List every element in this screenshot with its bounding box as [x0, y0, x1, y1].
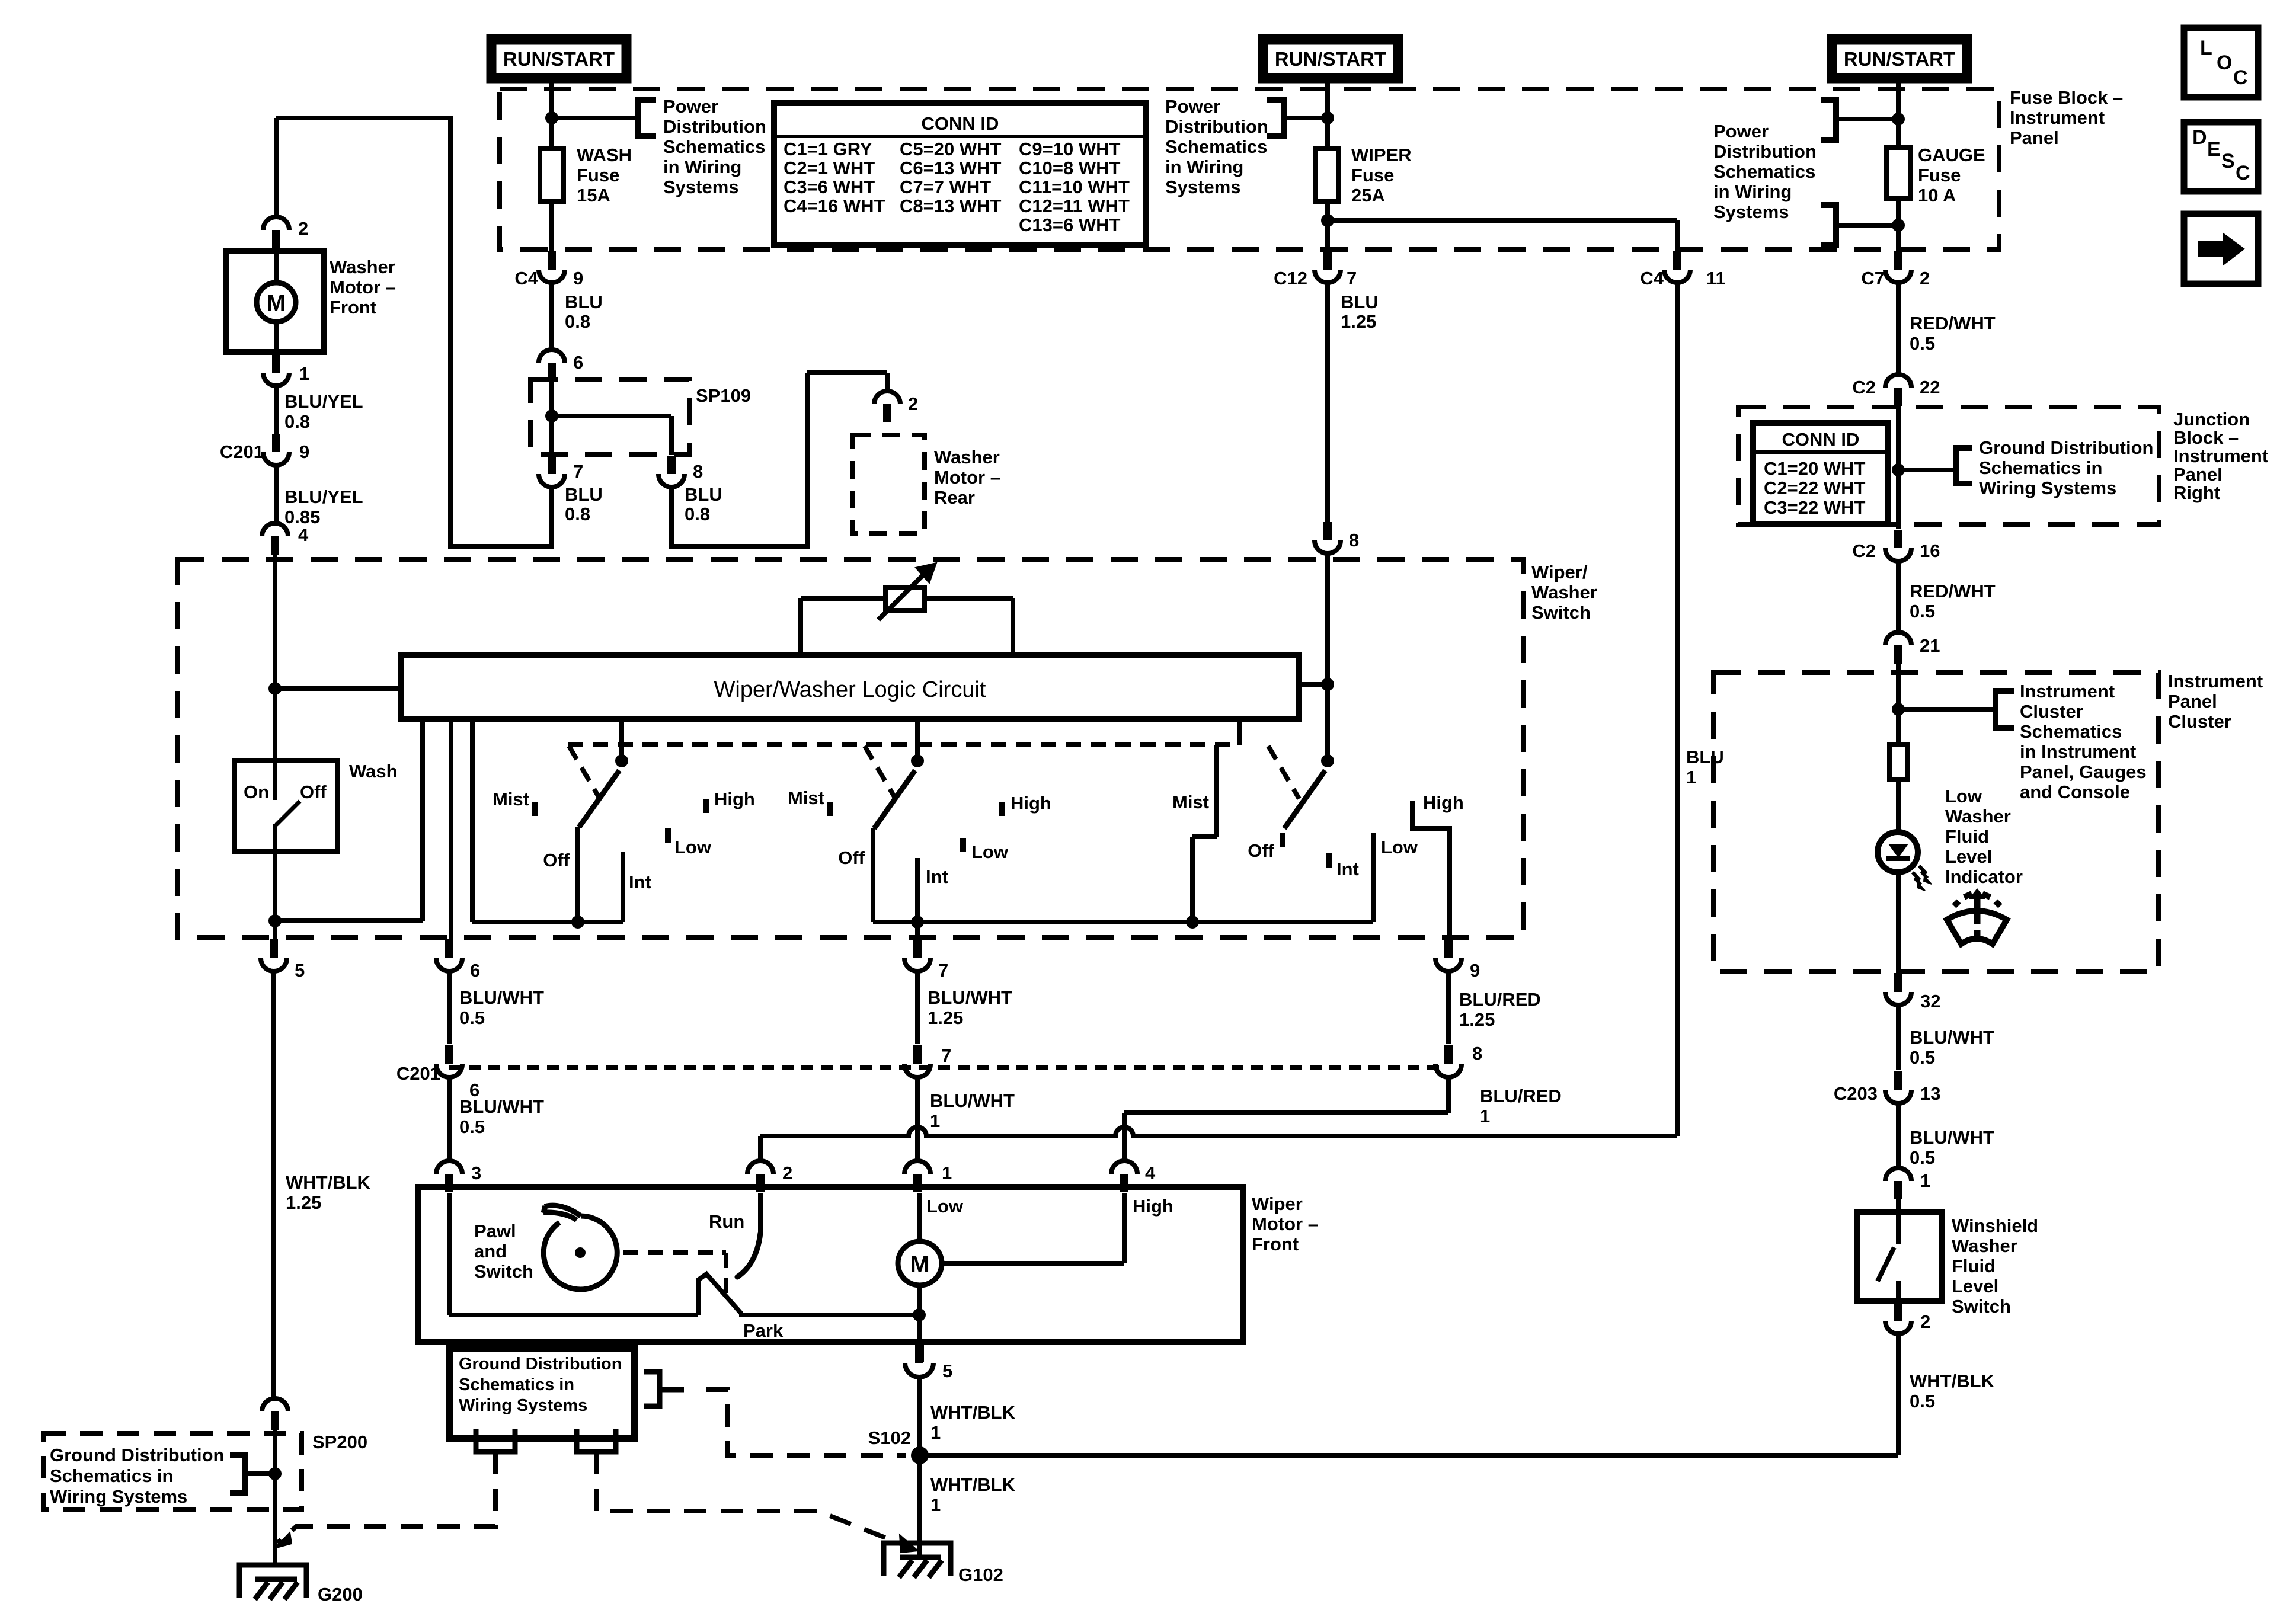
svg-text:D: D	[2192, 126, 2207, 149]
svg-text:5: 5	[295, 960, 305, 981]
wire to bracket 3a	[1836, 117, 1898, 121]
node junction block tap	[1892, 463, 1905, 476]
connector washer motor rear pin 2	[874, 391, 900, 422]
connector pin 2 (fluid switch)	[1894, 1301, 1902, 1320]
svg-text:Switch: Switch	[1952, 1296, 2011, 1317]
wire into SP109	[549, 381, 554, 455]
wire pin3 inside	[447, 1193, 452, 1315]
svg-text:BLU: BLU	[685, 484, 722, 505]
svg-text:C10=8 WHT: C10=8 WHT	[1019, 158, 1120, 178]
pole2 Int/output wire	[915, 858, 920, 939]
power source box RUN/START (right)	[1831, 39, 1968, 79]
svg-text:CONN ID: CONN ID	[922, 113, 999, 134]
svg-text:Mist: Mist	[1172, 792, 1209, 812]
junction block dashed box	[1738, 407, 2159, 524]
gang link pole 2	[865, 746, 896, 799]
windshield washer fluid level switch box	[1857, 1212, 1942, 1301]
connector C201 pin	[913, 1045, 922, 1062]
svg-text:Fuse: Fuse	[1918, 165, 1961, 185]
pole1 Low tick	[665, 828, 671, 843]
wire pin8 into logic	[1325, 553, 1330, 761]
wire C201-7 to motor pin1	[915, 1077, 920, 1161]
connector wiper motor pin 4	[1111, 1161, 1137, 1192]
wire wash out	[273, 852, 277, 939]
wire pin6 down	[447, 971, 452, 1044]
wire C201-9 to 4	[274, 465, 279, 524]
connector pin 21	[1885, 632, 1911, 664]
fuse block dashed enclosure	[500, 89, 1999, 249]
svg-text:WASH: WASH	[577, 145, 632, 165]
CONN ID table (wiper/washer switch)	[774, 103, 1146, 245]
svg-text:Int: Int	[1336, 859, 1359, 879]
fluid switch lower stub	[1896, 1281, 1901, 1301]
svg-text:Distribution: Distribution	[1713, 141, 1817, 162]
ground distribution dashed box (left)	[43, 1433, 302, 1510]
svg-text:BLU: BLU	[1686, 747, 1724, 767]
connector pin 7	[539, 456, 565, 487]
svg-text:Low: Low	[926, 1196, 964, 1217]
pole3 Mist step	[1192, 834, 1217, 839]
connector switch pin 7	[913, 939, 922, 957]
node WIPER out	[1321, 214, 1334, 227]
wire BLU/RED jog left	[1124, 1110, 1448, 1115]
svg-text:Panel: Panel	[2010, 127, 2059, 148]
svg-text:Instrument: Instrument	[2020, 681, 2115, 702]
wire run feed with hops	[760, 1127, 1677, 1136]
connector C2 pin 22	[1885, 375, 1911, 406]
LED indicator	[1878, 832, 1918, 872]
connector 6	[539, 350, 565, 381]
svg-text:C12: C12	[1274, 268, 1307, 289]
node gauge out	[1892, 219, 1905, 232]
svg-text:0.5: 0.5	[1910, 333, 1935, 354]
wire pin8 jog right	[669, 544, 807, 549]
wiper/washer switch dashed box	[177, 559, 1523, 937]
svg-text:Block –: Block –	[2173, 427, 2239, 448]
bracket power distribution (2)	[1267, 100, 1284, 136]
connector C2 pin 16	[1885, 530, 1911, 561]
svg-text:1: 1	[930, 1110, 940, 1131]
wire C201-6 to motor pin3	[447, 1077, 452, 1161]
connector pin 8	[658, 456, 685, 487]
svg-text:7: 7	[938, 960, 948, 981]
wash switch box	[235, 761, 337, 852]
fluid switch blade	[1878, 1247, 1894, 1281]
svg-text:Fuse: Fuse	[1351, 165, 1394, 185]
svg-text:Switch: Switch	[1531, 602, 1591, 623]
connector C4 pin 9	[539, 251, 565, 283]
svg-text:RUN/START: RUN/START	[1275, 48, 1386, 70]
wire to bracket (2)	[1284, 116, 1328, 120]
wire logic riser collector 1	[470, 719, 475, 922]
connector pin 32	[1894, 973, 1902, 991]
svg-text:0.5: 0.5	[1910, 1391, 1935, 1411]
node cluster tap	[1892, 703, 1905, 716]
svg-text:C7=7 WHT: C7=7 WHT	[900, 177, 991, 197]
wire to C4-11	[1328, 218, 1677, 223]
park wire to motor	[739, 1313, 919, 1317]
washer motor rear dashed box	[853, 435, 925, 533]
pole2 collector	[873, 920, 1373, 924]
connector pin 1 (fluid switch)	[1885, 1168, 1911, 1199]
svg-text:Front: Front	[1252, 1234, 1299, 1254]
svg-text:Run: Run	[709, 1211, 744, 1232]
wire BLU 1 column	[1675, 283, 1680, 1136]
svg-text:in Instrument: in Instrument	[2020, 741, 2136, 762]
svg-text:Washer: Washer	[1952, 1235, 2017, 1256]
svg-text:0.8: 0.8	[565, 504, 590, 524]
pole2 pivot node	[911, 754, 924, 767]
svg-text:BLU: BLU	[1341, 292, 1379, 312]
svg-text:Cluster: Cluster	[2020, 701, 2083, 722]
wire into wash switch	[273, 689, 277, 761]
wire resistor to LED	[1896, 780, 1901, 973]
svg-text:CONN ID: CONN ID	[1782, 429, 1860, 450]
wire high to M	[942, 1261, 1124, 1266]
svg-text:BLU/WHT: BLU/WHT	[1910, 1027, 1994, 1048]
svg-text:9: 9	[1470, 960, 1480, 981]
svg-text:WIPER: WIPER	[1351, 145, 1412, 165]
svg-text:Power: Power	[1713, 121, 1769, 142]
wire C7-2 down	[1896, 283, 1901, 375]
pawl hook lower	[543, 1212, 577, 1220]
wire wash to logic pin	[275, 918, 423, 923]
svg-text:Off: Off	[1248, 840, 1274, 861]
svg-text:O: O	[2217, 52, 2232, 74]
pawl hook upper	[545, 1205, 581, 1216]
svg-text:Wiring Systems: Wiring Systems	[50, 1486, 187, 1507]
svg-text:21: 21	[1920, 635, 1940, 656]
LED light arrows	[1919, 866, 1927, 878]
svg-text:C: C	[2236, 162, 2250, 184]
node gauge feed	[1892, 113, 1905, 126]
staple pin A	[476, 1429, 515, 1452]
svg-text:in Wiring: in Wiring	[1713, 181, 1792, 202]
svg-text:Low: Low	[674, 837, 712, 857]
svg-text:0.5: 0.5	[459, 1116, 485, 1137]
svg-text:Mist: Mist	[788, 788, 824, 808]
wire C12 to switch pin 8	[1325, 283, 1330, 522]
wire pin4 into switch	[273, 555, 277, 689]
svg-text:9: 9	[573, 268, 583, 289]
svg-text:1: 1	[299, 363, 309, 384]
connector washer motor front pin 1	[272, 352, 280, 370]
node park junction	[913, 1308, 926, 1321]
svg-text:Off: Off	[838, 847, 865, 868]
svg-text:Systems: Systems	[1713, 201, 1789, 222]
fuse GAUGE 10A	[1886, 148, 1910, 199]
svg-text:RUN/START: RUN/START	[1844, 48, 1955, 70]
svg-text:L: L	[2200, 37, 2212, 59]
connector C201 pin	[445, 1045, 453, 1062]
wire bracket to G200 wire	[245, 1471, 275, 1476]
wire to ground distribution bracket	[1898, 468, 1956, 472]
wire into junction block	[1896, 406, 1901, 529]
bracket ground distribution (right)	[1956, 448, 1972, 484]
pole2 High tick	[999, 802, 1005, 816]
wire to power distribution bracket	[552, 116, 638, 120]
connector washer motor front pin 2	[263, 217, 289, 248]
svg-text:C1=20 WHT: C1=20 WHT	[1764, 458, 1865, 479]
svg-text:Right: Right	[2173, 482, 2220, 503]
svg-text:Wiring Systems: Wiring Systems	[459, 1396, 587, 1415]
svg-text:Low: Low	[1381, 837, 1418, 857]
svg-text:1: 1	[1686, 767, 1696, 788]
connector C201 pin	[1444, 1045, 1453, 1062]
wire motor out	[917, 1315, 922, 1342]
splice node S102	[911, 1446, 929, 1464]
wire riser to top feed	[448, 118, 453, 549]
gang link pole 3	[1268, 746, 1299, 799]
svg-text:4: 4	[298, 524, 309, 545]
svg-text:and Console: and Console	[2020, 782, 2130, 802]
wire SP109 branch	[552, 414, 671, 418]
wire 32 to C203	[1896, 1005, 1901, 1070]
svg-text:RED/WHT: RED/WHT	[1910, 313, 1996, 334]
wire pin7 jog left	[449, 544, 554, 549]
wire S102 to G102	[917, 1455, 922, 1560]
svg-text:13: 13	[1920, 1083, 1940, 1104]
wire run stub	[758, 1193, 763, 1233]
svg-text:2: 2	[908, 393, 918, 414]
svg-text:Motor –: Motor –	[934, 467, 1000, 488]
svg-text:0.5: 0.5	[1910, 1047, 1935, 1068]
power source box RUN/START (left)	[491, 39, 627, 79]
node WIPER feed	[1321, 111, 1334, 124]
park contact blade	[698, 1274, 741, 1315]
svg-text:8: 8	[1472, 1043, 1482, 1064]
dashed ground path to G102	[596, 1452, 908, 1547]
svg-text:Switch: Switch	[474, 1261, 533, 1282]
dashed ground path to G200	[277, 1452, 495, 1543]
svg-text:Wiper/: Wiper/	[1531, 562, 1588, 582]
svg-text:Mist: Mist	[493, 789, 529, 809]
svg-text:7: 7	[1347, 268, 1357, 289]
pole1 pivot stub	[619, 719, 624, 762]
ground G200	[239, 1565, 306, 1599]
svg-text:Cluster: Cluster	[2168, 711, 2231, 732]
connector wiper motor pin 1	[904, 1161, 930, 1192]
svg-text:Systems: Systems	[1165, 177, 1241, 197]
svg-text:22: 22	[1920, 377, 1940, 398]
wire BLU/RED drop	[1446, 1077, 1451, 1113]
svg-text:Instrument: Instrument	[2173, 446, 2268, 466]
wire logic to pin 6	[449, 719, 453, 939]
pawl circle	[543, 1216, 617, 1289]
svg-text:Level: Level	[1945, 846, 1992, 867]
svg-text:SP200: SP200	[312, 1432, 367, 1452]
svg-text:Instrument: Instrument	[2168, 671, 2263, 692]
wiper motor front box	[418, 1187, 1243, 1342]
connector C203 pin 13	[1894, 1071, 1902, 1089]
svg-text:Fluid: Fluid	[1945, 826, 1989, 847]
svg-text:Distribution: Distribution	[1165, 116, 1268, 137]
wire pin5 down	[271, 971, 276, 1399]
node SP109 junction	[545, 409, 558, 422]
wash switch blade	[276, 801, 300, 825]
svg-text:Power: Power	[1165, 96, 1220, 117]
connector switch pin 8	[1315, 522, 1341, 553]
logic circuit box	[401, 655, 1299, 719]
svg-text:Motor –: Motor –	[330, 277, 396, 297]
svg-text:Wiring Systems: Wiring Systems	[1979, 478, 2116, 498]
wire M to park node	[917, 1285, 922, 1315]
staple pin B	[577, 1429, 616, 1452]
arrow reference box	[2184, 214, 2258, 284]
svg-text:Systems: Systems	[663, 177, 739, 197]
svg-text:C201: C201	[220, 441, 264, 462]
svg-text:8: 8	[1349, 530, 1359, 550]
svg-text:Schematics: Schematics	[1713, 161, 1815, 182]
svg-text:Fuse Block –: Fuse Block –	[2010, 87, 2123, 108]
pole2 collector node	[911, 916, 924, 929]
pole1 Off contact	[575, 827, 580, 922]
CONN ID table (junction block)	[1753, 423, 1888, 524]
svg-text:Wiper/Washer Logic Circuit: Wiper/Washer Logic Circuit	[714, 677, 986, 702]
svg-text:10 A: 10 A	[1918, 185, 1956, 206]
ground distribution schematics box	[449, 1348, 635, 1438]
svg-text:RUN/START: RUN/START	[503, 48, 615, 70]
svg-text:Wash: Wash	[349, 761, 398, 782]
mechanical gang dashed line	[568, 742, 1236, 747]
wire gauge fuse out	[1896, 199, 1901, 251]
dashed ground path to S102	[706, 1390, 906, 1455]
wire low stub	[917, 1193, 922, 1241]
svg-text:E: E	[2207, 138, 2221, 161]
svg-text:Junction: Junction	[2173, 409, 2250, 430]
connector wiper motor pin 2	[747, 1161, 773, 1192]
svg-text:0.5: 0.5	[1910, 601, 1935, 622]
svg-text:BLU: BLU	[565, 484, 603, 505]
svg-text:Power: Power	[663, 96, 718, 117]
wash switch lower stub	[273, 824, 277, 852]
pole3 Int tick	[1326, 853, 1332, 868]
washer motor front box	[226, 251, 324, 352]
svg-text:BLU/WHT: BLU/WHT	[459, 987, 544, 1008]
svg-text:Level: Level	[1952, 1276, 1998, 1297]
svg-text:WHT/BLK: WHT/BLK	[286, 1172, 371, 1193]
resistor (cluster)	[1889, 744, 1907, 780]
svg-text:High: High	[1011, 793, 1051, 814]
washer fluid icon	[1947, 888, 2007, 944]
svg-text:1: 1	[930, 1422, 941, 1443]
pawl center dot	[575, 1247, 586, 1258]
connector switch pin 5	[270, 939, 278, 957]
wire pin21 into cluster	[1896, 664, 1901, 744]
wire into fluid switch	[1896, 1199, 1901, 1212]
svg-text:BLU/YEL: BLU/YEL	[284, 486, 363, 507]
wire WASH fuse to C4-9	[549, 201, 554, 251]
svg-text:C8=13 WHT: C8=13 WHT	[900, 196, 1001, 216]
pole2 blade	[874, 770, 915, 828]
svg-text:M: M	[267, 291, 286, 316]
wire C2-16 down	[1896, 561, 1901, 633]
svg-text:Schematics in: Schematics in	[459, 1375, 574, 1394]
pole1 Int contact	[621, 852, 625, 922]
svg-text:C4=16 WHT: C4=16 WHT	[784, 196, 885, 216]
svg-text:11: 11	[1706, 268, 1726, 289]
wire pin5 to S102	[917, 1376, 922, 1455]
connector wiper motor pin 5	[916, 1342, 924, 1362]
motor symbol M (wiper)	[898, 1241, 942, 1285]
svg-text:0.5: 0.5	[1910, 1147, 1935, 1168]
svg-text:Pawl: Pawl	[474, 1221, 516, 1241]
svg-text:G200: G200	[318, 1584, 363, 1605]
wire RUN/START3 to GAUGE fuse	[1896, 83, 1901, 148]
svg-text:GAUGE: GAUGE	[1918, 145, 1985, 165]
svg-text:2: 2	[1920, 268, 1930, 289]
svg-text:32: 32	[1920, 991, 1940, 1012]
fuse WIPER 25A	[1315, 148, 1339, 201]
pole3 Mist contact riser	[1214, 745, 1219, 837]
svg-text:8: 8	[693, 461, 703, 482]
svg-text:Off: Off	[300, 782, 327, 802]
svg-text:Schematics in: Schematics in	[1979, 457, 2102, 478]
wire stub to logic box	[1299, 682, 1328, 687]
bracket right of box	[644, 1372, 660, 1406]
fluid switch upper stub	[1896, 1212, 1901, 1244]
svg-text:Schematics: Schematics	[2020, 721, 2122, 742]
wash switch upper stub	[273, 761, 277, 800]
wire pin7 down	[915, 971, 920, 1044]
svg-text:1.25: 1.25	[286, 1192, 321, 1213]
svg-text:G102: G102	[958, 1564, 1003, 1585]
park lower wire	[449, 1313, 698, 1317]
svg-text:in Wiring: in Wiring	[663, 156, 741, 177]
svg-text:C2: C2	[1852, 377, 1876, 398]
svg-text:Schematics in: Schematics in	[50, 1465, 173, 1486]
svg-text:BLU/WHT: BLU/WHT	[930, 1090, 1015, 1111]
connector switch pin 9	[1444, 939, 1453, 957]
svg-text:C2: C2	[1852, 540, 1876, 561]
svg-text:Int: Int	[926, 866, 948, 887]
pole2 pivot stub	[915, 719, 920, 762]
wire motor stub bottom	[274, 322, 279, 352]
svg-text:C2=22 WHT: C2=22 WHT	[1764, 478, 1865, 498]
pole3 blade	[1284, 770, 1325, 828]
bracket instrument cluster	[1996, 691, 2014, 728]
svg-text:16: 16	[1920, 540, 1940, 561]
svg-text:Panel, Gauges: Panel, Gauges	[2020, 761, 2147, 782]
wire pin7 down	[549, 487, 554, 549]
svg-text:C4: C4	[1640, 268, 1664, 289]
svg-text:BLU/YEL: BLU/YEL	[284, 391, 363, 412]
svg-text:C7: C7	[1861, 268, 1885, 289]
svg-text:6: 6	[573, 352, 583, 373]
svg-text:0.5: 0.5	[459, 1007, 485, 1028]
wire logic riser (wash)	[420, 719, 425, 921]
LOC reference box	[2184, 28, 2258, 97]
splice SP109 dashed box	[530, 379, 689, 454]
run contact blade	[737, 1233, 760, 1277]
bracket power distribution (left box)	[638, 100, 656, 136]
svg-text:Washer: Washer	[1945, 806, 2011, 827]
svg-text:C3=22 WHT: C3=22 WHT	[1764, 497, 1865, 518]
svg-text:0.8: 0.8	[565, 311, 590, 332]
svg-text:S: S	[2221, 150, 2235, 172]
connector switch pin 6	[445, 939, 453, 957]
pole2 Off contact	[871, 828, 875, 922]
svg-text:Front: Front	[330, 297, 376, 318]
wire run drop to pin2	[758, 1136, 763, 1161]
svg-text:Fluid: Fluid	[1952, 1256, 1996, 1276]
svg-text:C201: C201	[396, 1063, 440, 1084]
connector C4 pin 11	[1664, 251, 1690, 283]
svg-text:Motor –: Motor –	[1252, 1214, 1318, 1234]
svg-text:Wiper: Wiper	[1252, 1193, 1303, 1214]
svg-text:2: 2	[298, 218, 308, 239]
power source box RUN/START (center)	[1262, 39, 1399, 79]
